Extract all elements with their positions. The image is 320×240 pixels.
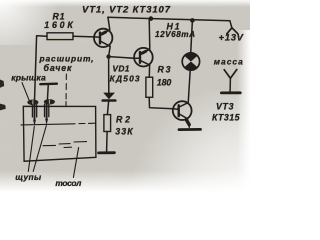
scan artifact mark left edge upper [0,80,4,88]
leader line kryshka -> cap [22,83,30,102]
svg-text:крышка: крышка [11,73,46,83]
svg-text:33К: 33К [115,127,133,137]
wire: +13V top rail [108,17,230,21]
junction dot rail/VT2 [149,16,154,21]
probe tube right [45,104,49,116]
wire: rail to lamp H1 [191,20,193,53]
+13V terminal fork [227,28,238,34]
node A junction dot [106,54,110,58]
junction dot rail/lamp [190,18,195,23]
transistor VT3 (KT315 NPN) [173,101,192,124]
wire: VT1 collector down to node A [109,46,111,56]
svg-text:бачек: бачек [44,63,73,73]
svg-text:VD1: VD1 [112,64,129,74]
resistor R2 33K [104,115,111,132]
leader line (dashed) bachek -> tank [65,74,67,106]
coolant dashes [43,142,87,148]
transistor VT1 (KT3107 PNP) [94,29,112,47]
paper background [0,0,250,200]
wire: VT2 emitter up to rail [148,19,151,50]
resistor R3 180 [146,77,153,97]
probe rod right [46,104,48,119]
svg-text:масса: масса [214,56,243,66]
svg-text:КД503: КД503 [110,73,140,83]
wire: R2 bottom to chassis [106,132,109,152]
svg-text:тосол: тосол [55,178,82,188]
svg-text:+13V: +13V [219,32,244,43]
svg-text:VT3: VT3 [216,102,234,112]
probe tube left [32,105,36,117]
lamp H1 12V 68mA [182,53,199,70]
wire: right probe stem [46,84,49,101]
wire: node A to VT2 base [109,57,135,59]
probe tip right (arrow) [45,119,48,125]
diode VD1 KD503 [103,58,116,115]
leader lines shchupy -> probes [28,126,46,172]
wire: lamp bottom to VT3 collector [188,70,190,101]
wire: VT2 collector to R3 [148,65,150,77]
wire: VT3 emitter to chassis [187,119,189,128]
wire: VT1 emitter up to rail [108,18,110,30]
scan artifact mark left edge lower [0,104,6,111]
coolant level line [21,123,95,125]
ground (chassis bar) under VT3 [179,128,201,131]
ground (chassis bar) under R2 [99,151,115,154]
svg-text:12V68mA: 12V68mA [155,30,195,39]
svg-text:VT1, VT2 КТ3107: VT1, VT2 КТ3107 [82,4,171,15]
wire: R1 left lead down to left probe [34,36,36,104]
tank cap grommet right [44,99,55,104]
svg-text:щупы: щупы [15,172,41,182]
tank cap grommet left [27,100,38,106]
probe rod left [34,105,36,120]
ground (chassis bar) on right probe [40,82,57,85]
probe tip left (arrow) [33,120,36,126]
chassis terminal "massa" [221,70,240,93]
svg-text:КТ315: КТ315 [212,113,240,123]
wire: rail corner down to +13V terminal [230,21,232,28]
transistor VT2 (KT3107 PNP) [134,48,153,67]
leader line tosol -> coolant [73,148,78,178]
svg-text:160К: 160К [44,20,73,30]
expansion tank outline [23,106,96,161]
svg-text:180: 180 [157,77,172,87]
wire: R3 bottom to VT3 base [149,97,173,109]
resistor R1 160K [37,33,95,40]
